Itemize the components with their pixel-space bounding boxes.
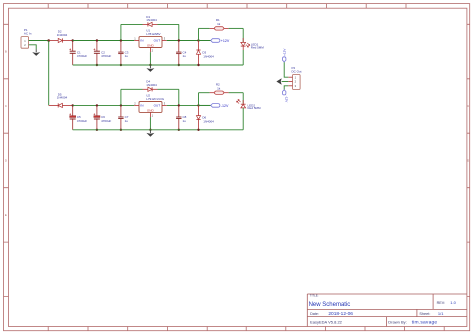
svg-text:IN: IN <box>140 104 143 108</box>
svg-text:1k: 1k <box>217 22 221 26</box>
svg-text:GND: GND <box>147 109 155 113</box>
wire U1 out to +12V node <box>167 40 211 42</box>
svg-text:+12V: +12V <box>282 48 286 56</box>
diode D1 <box>143 15 158 27</box>
svg-text:Drawn By:: Drawn By: <box>388 319 406 324</box>
svg-text:DC Out: DC Out <box>292 69 302 73</box>
wire P1 pin1 to node A <box>29 40 49 42</box>
diode D3 <box>196 41 214 66</box>
capacitor C5 <box>69 105 87 129</box>
wire top rail C1 to U1 <box>73 40 135 42</box>
wire D1 loop left riser <box>120 24 122 40</box>
wire R2 riser <box>198 93 200 106</box>
wire P2 pin3 down <box>284 86 288 90</box>
wire node A down to negative rail <box>48 41 50 106</box>
svg-text:4700uF: 4700uF <box>101 119 111 123</box>
ground under P1 <box>32 49 40 56</box>
svg-text:1k: 1k <box>217 87 221 91</box>
svg-text:4700uF: 4700uF <box>77 54 87 58</box>
net flag +12V at P2 <box>282 48 286 62</box>
svg-text:1N4004: 1N4004 <box>203 119 214 123</box>
junction C7/D4 top <box>120 104 122 106</box>
capacitor C7 <box>118 105 129 129</box>
ground at P2 <box>276 78 281 85</box>
title block <box>307 294 467 327</box>
wire U2 gnd down to ground rail <box>149 117 151 130</box>
svg-text:New Schematic: New Schematic <box>309 302 351 308</box>
svg-text:L7812ABV: L7812ABV <box>146 32 160 36</box>
svg-text:AC In: AC In <box>24 32 32 36</box>
resistor R2 <box>210 83 229 95</box>
svg-text:C: C <box>5 104 7 108</box>
wire P1 pin2 to ground <box>29 45 37 49</box>
wire D4 loop top <box>121 88 143 90</box>
svg-text:-12V: -12V <box>284 96 288 103</box>
LED LED2 <box>237 99 262 110</box>
wire U1 gnd down to ground rail <box>149 52 151 65</box>
svg-text:tim.savage: tim.savage <box>412 319 438 325</box>
svg-text:1u: 1u <box>183 54 187 58</box>
svg-text:Red 5MM: Red 5MM <box>248 106 262 110</box>
net flag -12V <box>199 104 229 108</box>
wire ground rail stage 2 <box>73 129 244 131</box>
resistor R1 <box>210 18 229 30</box>
wire R2 row <box>199 92 210 94</box>
capacitor C1 <box>69 41 87 66</box>
svg-text:1N4004: 1N4004 <box>203 54 214 58</box>
net flag -12V at P2 <box>283 90 289 103</box>
wire LED2 column top <box>242 93 244 104</box>
svg-text:1N4004: 1N4004 <box>57 33 68 37</box>
svg-text:2018-12-06: 2018-12-06 <box>328 311 353 317</box>
junction C4 top <box>178 39 180 41</box>
svg-text:1u: 1u <box>125 119 129 123</box>
capacitor C3 <box>118 41 129 66</box>
junction D6 bottom <box>197 129 199 131</box>
svg-text:Red 5MM: Red 5MM <box>251 45 265 49</box>
junction C2 top <box>96 39 98 41</box>
svg-text:C: C <box>467 104 469 108</box>
wire U2 out to -12V node <box>167 104 211 106</box>
junction C3 bottom <box>120 64 122 66</box>
junction C1 top <box>72 39 74 41</box>
wire LED1 column bottom <box>242 50 244 65</box>
junction -12V node <box>197 104 199 106</box>
wire P2 pin1 up <box>284 62 288 77</box>
node A junction <box>47 39 50 42</box>
junction C8 bottom <box>178 129 180 131</box>
wire R1 row <box>199 27 210 29</box>
junction C6 bottom <box>96 129 98 131</box>
svg-text:B: B <box>5 50 7 54</box>
svg-text:GND: GND <box>147 44 155 48</box>
connector P1 <box>21 28 32 48</box>
svg-text:Sheet:: Sheet: <box>419 312 430 316</box>
svg-text:E: E <box>5 213 7 217</box>
svg-text:+12V: +12V <box>221 39 230 43</box>
svg-text:1N4004: 1N4004 <box>57 96 68 100</box>
junction C4 bottom <box>178 64 180 66</box>
junction C5 top <box>72 104 74 106</box>
diode D4 <box>143 80 158 92</box>
wire D4 loop right riser <box>178 89 180 105</box>
svg-text:TITLE:: TITLE: <box>310 293 319 297</box>
svg-text:1/1: 1/1 <box>438 311 444 316</box>
junction C3/D1 top <box>120 39 122 41</box>
junction C2 bottom <box>96 64 98 66</box>
diode D2 <box>49 30 73 43</box>
svg-text:OUT: OUT <box>154 39 161 43</box>
junction U1 gnd on rail <box>149 64 151 66</box>
wire LED1 column top <box>242 28 244 42</box>
svg-text:D: D <box>5 159 7 163</box>
svg-text:4700uF: 4700uF <box>77 119 87 123</box>
svg-text:EasyEDA V5.8.22: EasyEDA V5.8.22 <box>310 319 343 324</box>
svg-text:4700uF: 4700uF <box>101 54 111 58</box>
svg-text:OUT: OUT <box>154 104 161 108</box>
wire D1 loop right riser <box>178 24 180 40</box>
capacitor C8 <box>176 105 187 129</box>
svg-text:REV:: REV: <box>437 301 445 305</box>
svg-text:1u: 1u <box>125 54 129 58</box>
diode D6 <box>196 105 214 129</box>
junction +12V node <box>197 39 199 41</box>
ground of second stage <box>146 130 154 137</box>
svg-text:Date:: Date: <box>310 312 319 316</box>
net flag +12V <box>199 39 230 43</box>
svg-text:L7912CV-DG: L7912CV-DG <box>146 97 165 101</box>
svg-text:1N4004: 1N4004 <box>146 83 157 87</box>
svg-text:IN: IN <box>140 39 143 43</box>
ground of first stage <box>146 65 154 72</box>
junction C8 top <box>178 104 180 106</box>
svg-text:1.0: 1.0 <box>450 300 456 305</box>
junction C6 top <box>96 104 98 106</box>
svg-text:D: D <box>467 159 469 163</box>
junction D3 bottom <box>197 64 199 66</box>
wire LED2 column bottom <box>242 108 244 130</box>
regulator U2 <box>134 94 166 118</box>
junction U2 gnd on rail <box>149 129 151 131</box>
wire D4 loop left riser <box>120 89 122 105</box>
diode D5 <box>49 92 73 107</box>
wire negative rail C5 to U2 <box>73 104 135 106</box>
wire P2 pin2 to ground <box>282 81 289 83</box>
regulator U1 <box>134 29 166 53</box>
capacitor C6 <box>94 105 112 129</box>
junction C7 bottom <box>120 129 122 131</box>
svg-text:1N4004: 1N4004 <box>146 18 157 22</box>
LED LED1 <box>241 38 265 50</box>
wire ground rail stage 1 <box>73 64 244 66</box>
capacitor C2 <box>94 41 112 66</box>
capacitor C4 <box>176 41 187 66</box>
wire D1 loop top <box>121 23 143 25</box>
svg-text:1u: 1u <box>183 119 187 123</box>
wire R1 riser <box>198 28 200 40</box>
svg-text:-12V: -12V <box>221 104 229 108</box>
connector P2 <box>288 66 301 89</box>
